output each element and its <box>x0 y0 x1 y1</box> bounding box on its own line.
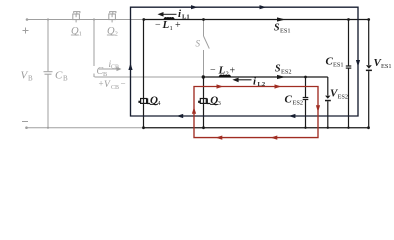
capacitor CES1 <box>346 20 352 128</box>
node mid rail S junction <box>202 75 205 78</box>
node battery cap bottom junction <box>47 127 49 129</box>
svg-text:L: L <box>162 19 170 31</box>
loop1 left arrow bottom 1 <box>176 114 183 118</box>
wire current loop 1 navy <box>131 7 359 116</box>
transistor Q2 <box>109 12 116 23</box>
svg-text:ES1: ES1 <box>280 28 291 35</box>
svg-text:2: 2 <box>115 30 118 37</box>
source VES2 <box>325 77 331 128</box>
svg-text:+: + <box>175 20 181 31</box>
svg-text:ES2: ES2 <box>293 100 304 107</box>
node CES2 top junction <box>304 76 307 79</box>
loop2 down arrow right side <box>316 105 320 112</box>
node VES1 top junction <box>367 18 370 21</box>
battery port plus sign <box>23 28 29 34</box>
wire top rail black <box>144 19 370 21</box>
wire top rail gray <box>27 19 145 21</box>
node top-left terminal <box>26 18 29 21</box>
node bottom rail right end <box>367 126 370 129</box>
loop1 down arrow right side <box>356 60 360 67</box>
svg-text:+: + <box>230 66 236 77</box>
svg-text:−: − <box>210 65 216 76</box>
loop1 left arrow bottom 2 <box>289 114 296 118</box>
svg-text:B: B <box>28 75 33 83</box>
svg-text:1: 1 <box>79 30 82 37</box>
node CES2 bottom junction <box>304 127 306 129</box>
node Q3 bottom junction <box>202 126 205 129</box>
node bottom-left terminal <box>25 126 28 129</box>
svg-text:2: 2 <box>226 71 229 78</box>
capacitor CB blocking branch <box>93 20 95 78</box>
current arrow on mid rail <box>277 75 286 79</box>
node battery cap junction <box>47 18 49 20</box>
transistor Q1 <box>73 12 80 23</box>
svg-text:L1: L1 <box>182 14 190 21</box>
node VES2 bottom junction <box>327 127 329 129</box>
svg-text:C: C <box>55 70 63 82</box>
inductor L1 <box>165 18 174 20</box>
node CES1 top junction <box>347 18 350 21</box>
svg-text:S: S <box>196 39 201 49</box>
svg-text:+: + <box>99 79 104 89</box>
svg-text:B: B <box>63 75 68 83</box>
loop2 left arrow bottom 1 <box>216 136 223 140</box>
capacitor CB battery side <box>44 20 53 128</box>
wire bottom rail black <box>144 127 369 129</box>
svg-text:CB: CB <box>111 85 119 91</box>
label iL1 with arrow <box>162 13 177 15</box>
wire mid rail black <box>203 76 327 78</box>
wire current loop 2 red <box>194 87 318 138</box>
loop1 right arrow top 2 <box>260 5 267 9</box>
svg-text:ES2: ES2 <box>281 69 292 76</box>
svg-text:ES1: ES1 <box>333 62 344 69</box>
transistor Q4 <box>143 20 145 128</box>
battery port minus sign <box>22 121 28 123</box>
wire bottom rail gray <box>26 127 144 129</box>
loop1 up arrow left side <box>128 63 132 70</box>
transistor Q3 <box>203 77 205 128</box>
capacitor CES2 <box>303 77 309 128</box>
svg-text:4: 4 <box>157 100 161 107</box>
svg-text:−: − <box>155 20 161 31</box>
loop2 right arrow top 2 <box>275 84 282 88</box>
switch S <box>204 20 210 78</box>
svg-text:ES1: ES1 <box>381 63 392 70</box>
svg-text:3: 3 <box>218 100 221 107</box>
loop2 left arrow bottom 2 <box>271 136 278 140</box>
svg-text:ES2: ES2 <box>338 94 349 101</box>
loop1 right arrow top 1 <box>191 5 198 9</box>
node CB annotation junction <box>93 18 95 20</box>
svg-text:L: L <box>218 65 226 77</box>
inductor L2 <box>220 75 230 77</box>
loop2 right arrow top 1 <box>217 84 224 88</box>
node CES1 bottom junction <box>347 127 349 129</box>
wire mid rail gray <box>95 76 203 78</box>
label iL2 with arrow <box>238 79 252 81</box>
loop2 up arrow left side <box>192 107 196 114</box>
svg-text:C: C <box>285 94 293 106</box>
svg-text:−: − <box>121 79 126 89</box>
node Q4 bottom junction <box>142 126 145 129</box>
node switch S junction <box>202 18 205 21</box>
source VES1 <box>366 20 372 128</box>
current arrow on top rail <box>277 17 286 21</box>
svg-text:V: V <box>104 80 111 90</box>
svg-text:1: 1 <box>170 25 173 32</box>
node L1 left junction <box>142 18 145 21</box>
